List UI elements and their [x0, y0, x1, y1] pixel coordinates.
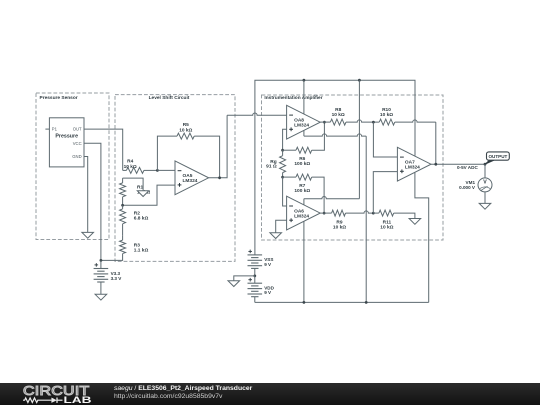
node: negative rail / OA8 V- riser [365, 301, 368, 304]
svg-text:VCC: VCC [73, 141, 82, 146]
node: OA6 output / R7 [323, 212, 326, 215]
wire: OA7 output [431, 163, 485, 165]
svg-text:OUT: OUT [73, 127, 82, 132]
resistor R1 10k [122, 178, 124, 183]
node: Rg/R7/OA6- junction [281, 176, 284, 179]
wire: sensor GND down [84, 157, 88, 233]
resistor R10 10k [379, 119, 394, 125]
annotation box: Level Shift Circuit [115, 95, 235, 262]
svg-text:Level Shift Circuit: Level Shift Circuit [149, 95, 190, 101]
ground (V3.3) [95, 294, 107, 300]
svg-text:R5: R5 [183, 122, 189, 128]
wire: OA7 plus input [373, 172, 397, 214]
svg-text:3.3 V: 3.3 V [111, 276, 123, 281]
CircuitLab logo resistor zigzag [23, 398, 51, 403]
resistor R8 10k [320, 121, 330, 123]
svg-text:OA5: OA5 [183, 173, 193, 179]
node: rail / OA8 V+ [303, 79, 306, 82]
svg-text:OA8: OA8 [294, 117, 304, 123]
wire: OA6 V+ riser [358, 80, 360, 199]
wire: OA5 minus input [157, 169, 175, 171]
svg-text:91 Ω: 91 Ω [266, 163, 277, 169]
node: battery V3.3 plus junction [100, 259, 103, 262]
svg-text:LM324: LM324 [294, 123, 309, 129]
svg-text:OA7: OA7 [405, 159, 415, 165]
node: R1/R2/OA5+ junction [121, 204, 124, 207]
wire: OA7 minus input [373, 122, 397, 157]
voltmeter VM1 [484, 164, 486, 178]
svg-text:1.1 kΩ: 1.1 kΩ [134, 248, 149, 254]
resistor R3 1.1k [120, 240, 126, 253]
node: R4/R5/OA5- junction [156, 169, 159, 172]
ground (sensor GND) [82, 232, 94, 238]
wire: sensor VCC down to battery node [84, 143, 101, 260]
ground (supply midpoint) [228, 281, 240, 287]
svg-text:10 kΩ: 10 kΩ [179, 128, 192, 134]
node: R8/R10/OA7- junction [372, 121, 375, 124]
svg-text:10 kΩ: 10 kΩ [380, 112, 393, 118]
node: output / R10 feedback [434, 163, 437, 166]
wire: OA7 V- to negative rail [415, 173, 429, 303]
svg-text:OUTPUT: OUTPUT [488, 154, 507, 159]
svg-text:Pressure Sensor: Pressure Sensor [40, 95, 78, 101]
wire: R1 top to ground [123, 178, 144, 191]
node: output terminal [484, 163, 487, 166]
node: negative rail / OA6 V- [303, 301, 306, 304]
resistor R6 100k [283, 149, 296, 151]
op-amp OA6 V- wire [303, 221, 305, 302]
resistor R5 10k feedback [157, 136, 177, 170]
svg-text:100 kΩ: 100 kΩ [294, 161, 310, 167]
svg-text:R2: R2 [134, 210, 140, 216]
node: rail / OA6 V+ riser [358, 79, 361, 82]
wire: OA5 plus input from divider [123, 185, 175, 205]
op-amp OA5 LM324 [175, 161, 209, 195]
node: R9/R11/OA7+ junction [372, 212, 375, 215]
svg-text:R3: R3 [134, 242, 140, 248]
battery V3.3 3.3V [100, 260, 102, 268]
annotation box: Instrumentation Amplifier [262, 95, 444, 240]
wire: OA6 plus input to ground [276, 220, 287, 233]
svg-text:OA6: OA6 [294, 208, 304, 214]
svg-text:10 kΩ: 10 kΩ [380, 224, 393, 230]
svg-text:P1: P1 [52, 127, 58, 132]
node: OA8 output / R6 [323, 121, 326, 124]
wire: OA5 output to instrumentation amp [209, 115, 228, 178]
svg-text:Instrumentation Amplifier: Instrumentation Amplifier [264, 95, 322, 101]
svg-text:GND: GND [72, 154, 81, 159]
ground (VM1) [479, 203, 491, 209]
wire: OA8 plus input [283, 129, 287, 150]
ground (R1 top) [137, 191, 149, 197]
svg-text:10 kΩ: 10 kΩ [332, 112, 345, 118]
op-amp OA7 LM324 [397, 147, 431, 181]
resistor R2 6.8k [122, 205, 124, 209]
svg-text:LM324: LM324 [183, 178, 198, 184]
svg-text:0.000 V: 0.000 V [459, 185, 476, 190]
wire: OA8 V- to negative rail riser [303, 130, 305, 136]
ground (R11) [409, 219, 421, 225]
svg-text:Pressure: Pressure [55, 133, 78, 139]
op-amp OA8 LM324 [287, 105, 321, 139]
svg-text:9 V: 9 V [264, 262, 272, 267]
svg-text:LAB: LAB [63, 395, 91, 405]
wire: positive supply rail [255, 80, 415, 255]
svg-text:6.8 kΩ: 6.8 kΩ [134, 216, 149, 222]
svg-text:R1: R1 [137, 184, 143, 190]
wire: supply midpoint to ground [234, 276, 255, 281]
ground (OA6 plus) [270, 233, 282, 239]
resistor R7 100k [283, 176, 296, 178]
op-amp OA6 LM324 [287, 196, 321, 230]
pressure sensor U1 (Pressure) [49, 118, 84, 167]
svg-text:LM324: LM324 [405, 165, 420, 171]
svg-text:9 V: 9 V [264, 290, 272, 295]
flag OUTPUT [485, 160, 494, 164]
svg-text:R4: R4 [127, 159, 133, 165]
svg-text:LM324: LM324 [294, 214, 309, 220]
annotation box: Pressure Sensor [36, 93, 109, 240]
battery VDD 9V [248, 279, 252, 281]
resistor Rg 91ohm [282, 150, 284, 156]
node: VSS-/VDD+ junction [253, 275, 256, 278]
node: OA5 output / R5 [218, 176, 221, 179]
battery VSS 9V [248, 250, 252, 252]
wire: OA8 V+ pin [303, 80, 305, 114]
svg-text:100 kΩ: 100 kΩ [294, 188, 310, 194]
wire: sensor OUT to R4 [84, 129, 123, 170]
svg-text:10 kΩ: 10 kΩ [124, 164, 137, 170]
resistor R11 10k [379, 210, 394, 216]
node: OA8+/R6/Rg junction [281, 149, 284, 152]
wire: OA6 minus input [283, 177, 287, 206]
svg-text:10 kΩ: 10 kΩ [333, 224, 346, 230]
svg-text:V: V [483, 180, 487, 186]
svg-text:0-5V ADC: 0-5V ADC [457, 165, 478, 170]
resistor R9 10k [320, 212, 331, 214]
resistor R4 10k [123, 169, 127, 171]
CircuitLab logo diode [51, 398, 56, 403]
wire: negative supply rail [255, 301, 429, 303]
